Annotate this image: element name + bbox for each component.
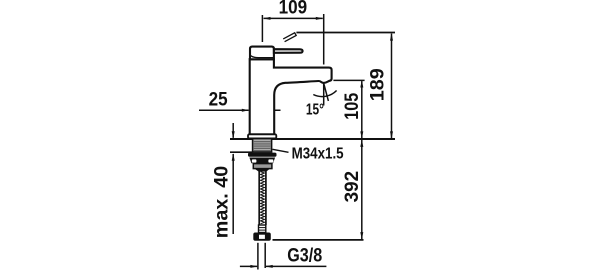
svg-text:392: 392 xyxy=(342,171,363,203)
svg-text:105: 105 xyxy=(342,92,363,119)
svg-text:109: 109 xyxy=(279,0,308,19)
svg-text:max. 40: max. 40 xyxy=(212,166,233,239)
svg-text:15°: 15° xyxy=(306,101,324,118)
svg-text:G3/8: G3/8 xyxy=(287,245,322,267)
svg-text:189: 189 xyxy=(368,68,389,101)
svg-text:M34x1.5: M34x1.5 xyxy=(292,146,344,163)
svg-text:25: 25 xyxy=(209,89,228,110)
